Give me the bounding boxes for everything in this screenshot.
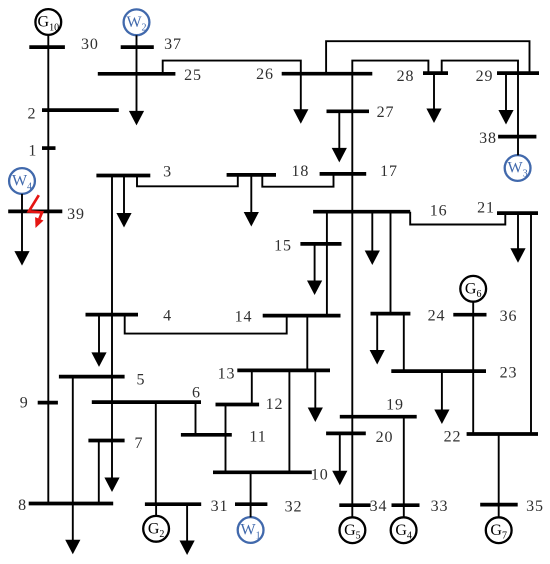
svg-text:11: 11 (249, 429, 266, 446)
wire bus 30 to bus 2 (47, 47, 49, 110)
wire bus 4 to bus 14 (125, 315, 287, 334)
bus 22 (467, 432, 538, 436)
wire bus 35 to G7 (498, 505, 500, 518)
svg-text:2: 2 (28, 106, 37, 123)
generator G5 (340, 517, 366, 543)
bus 27 (327, 109, 370, 113)
svg-text:4: 4 (163, 308, 172, 325)
load arrow bus 26 (293, 74, 308, 124)
svg-text:29: 29 (476, 68, 494, 85)
wire bus 22 to bus 35 (498, 434, 500, 505)
svg-text:27: 27 (377, 104, 395, 121)
svg-text:8: 8 (18, 497, 27, 514)
svg-text:20: 20 (376, 429, 394, 446)
svg-text:26: 26 (256, 66, 274, 83)
svg-text:17: 17 (380, 163, 398, 180)
generator G7 (486, 517, 512, 543)
bus 21 (497, 211, 538, 215)
bus 13 (237, 369, 330, 373)
svg-text:9: 9 (20, 394, 29, 411)
wire bus 38 to W3 (517, 137, 519, 156)
wire bus 9 to bus 8 (47, 403, 49, 504)
wire bus 19 to bus 33 (403, 417, 405, 506)
wire W4 to bus 39 (21, 194, 23, 212)
bus 24 (371, 312, 411, 316)
wire bus 33 to G4 (403, 505, 405, 517)
svg-text:30: 30 (81, 36, 99, 53)
svg-text:12: 12 (266, 396, 284, 413)
wire bus 4 to bus 5 (111, 315, 113, 377)
generator G6 (460, 276, 486, 302)
wire bus 19 to bus 20 (351, 417, 353, 434)
load arrow bus 23 (434, 371, 449, 424)
bus 26 (282, 72, 373, 76)
svg-text:21: 21 (477, 200, 495, 217)
load arrow bus 7 (104, 441, 119, 493)
bus 15 (300, 242, 341, 246)
load arrow bus 20 (332, 433, 347, 485)
wire bus 27 to bus 17 (351, 111, 353, 174)
bus 4 (86, 313, 139, 317)
wire bus 16 to bus 24 (390, 212, 392, 314)
svg-text:33: 33 (431, 498, 449, 515)
bus 16 (313, 210, 410, 214)
wire bus 18 to bus 17 (262, 174, 333, 187)
svg-text:32: 32 (285, 499, 303, 516)
wire bus 6 to bus 11 (195, 402, 197, 435)
wire bus 5 to bus 6 (111, 377, 113, 403)
bus 23 (391, 369, 486, 373)
wind unit W4 (9, 168, 35, 194)
wire bus 16 to bus 19 (351, 212, 353, 417)
load arrow bus 25 (129, 74, 144, 126)
load arrow bus 15 (307, 244, 322, 295)
wire bus 25 to bus 26 (163, 61, 301, 74)
wire W2 to bus 37 (136, 35, 138, 47)
load arrow bus 27 (332, 111, 347, 162)
bus 32 (235, 502, 267, 506)
svg-text:6: 6 (192, 385, 201, 402)
bus 12 (216, 403, 260, 407)
bus 19 (340, 415, 417, 419)
load arrow bus 21 (510, 213, 525, 263)
bus 18 (227, 173, 276, 177)
wire bus 23 to bus 22 (472, 371, 474, 434)
generator G2 (143, 516, 169, 542)
wire bus 10 to bus 32 (250, 472, 252, 504)
wire bus 15 to bus 14 (326, 244, 328, 316)
wire G10 to bus 30 (47, 35, 49, 47)
load arrow bus 18 (244, 175, 259, 227)
wire bus 24 to bus 23 (403, 314, 405, 372)
bus 20 (326, 432, 366, 436)
wire bus 2 to bus 1 (47, 110, 49, 148)
svg-text:5: 5 (136, 372, 145, 389)
wire bus 1 to bus 39 (47, 148, 49, 211)
wire bus 37 to bus 25 (136, 47, 138, 74)
svg-text:38: 38 (479, 130, 497, 147)
wire bus 3 to bus 4 (111, 176, 113, 315)
wire bus 5 to bus 8 (72, 377, 74, 504)
svg-text:39: 39 (67, 206, 85, 223)
bus 5 (59, 375, 125, 379)
wire bus 16 to bus 15 (326, 212, 328, 244)
svg-text:3: 3 (163, 163, 172, 180)
svg-text:23: 23 (500, 365, 518, 382)
wire bus 31 to G2 (155, 504, 157, 516)
wire bus 26 to bus 28 (352, 61, 428, 74)
wire bus 28 to bus 29 (442, 61, 518, 74)
bus 30 (29, 45, 65, 49)
load arrow bus 3 (116, 176, 131, 228)
wire bus 20 to bus 34 (351, 433, 353, 505)
load arrow bus 4 (91, 315, 106, 367)
wire bus 7 to bus 8 (98, 441, 100, 504)
wire bus 16 to bus 21 (410, 212, 505, 225)
wire bus 29 to bus 38 (517, 73, 519, 137)
wire bus 32 to W1 (250, 504, 252, 517)
wire bus 26 to bus 29 (326, 41, 529, 73)
bus 37 (121, 45, 154, 49)
fault lightning arrow at bus 39 (29, 195, 44, 228)
svg-text:22: 22 (444, 429, 462, 446)
bus 38 (498, 135, 536, 139)
svg-text:25: 25 (184, 67, 202, 84)
svg-text:36: 36 (500, 308, 518, 325)
svg-text:37: 37 (164, 36, 182, 53)
wire bus 11 to bus 10 (225, 435, 227, 473)
generator G4 (391, 517, 417, 543)
svg-text:19: 19 (386, 397, 404, 414)
bus 2 (42, 108, 119, 112)
load arrow bus 24 (370, 314, 385, 365)
wire bus 21 to bus 22 (530, 213, 532, 434)
bus 17 (320, 172, 367, 176)
bus 1 (42, 146, 56, 150)
svg-text:15: 15 (274, 238, 292, 255)
wind unit W2 (124, 9, 150, 35)
svg-text:35: 35 (526, 498, 544, 515)
load arrow bus 16 (365, 212, 380, 265)
wire bus 14 to bus 13 (306, 316, 308, 371)
svg-text:31: 31 (211, 498, 229, 515)
wire bus 6 to bus 7 (111, 402, 113, 440)
wire G6 to bus 36 (472, 302, 474, 315)
load arrow bus 28 (426, 73, 441, 123)
bus 10 (213, 470, 312, 474)
bus 6 (92, 400, 201, 404)
svg-text:24: 24 (428, 308, 446, 325)
bus 33 (392, 503, 420, 507)
wire bus 12 to bus 11 (225, 405, 227, 435)
wire bus 13 to bus 12 (251, 370, 253, 404)
bus 14 (263, 314, 341, 318)
bus 39 (8, 210, 62, 214)
wire bus 39 to bus 9 (47, 211, 49, 402)
load arrow bus 29 (498, 73, 513, 124)
bus 28 (423, 71, 448, 75)
svg-text:18: 18 (291, 163, 309, 180)
svg-text:16: 16 (430, 203, 448, 220)
generator G10 (35, 9, 61, 35)
bus 29 (497, 71, 539, 75)
bus 35 (480, 503, 518, 507)
svg-text:7: 7 (135, 435, 144, 452)
wire bus 34 to G5 (351, 505, 353, 517)
wire bus 26 to bus 27 (351, 74, 353, 112)
svg-text:10: 10 (311, 467, 329, 484)
bus 36 (453, 313, 486, 317)
svg-text:14: 14 (235, 309, 253, 326)
svg-text:13: 13 (218, 366, 236, 383)
load arrow bus 39 (14, 211, 29, 265)
bus 7 (88, 439, 124, 443)
bus 8 (29, 502, 114, 506)
svg-text:28: 28 (397, 68, 415, 85)
load arrow bus 31 (180, 504, 195, 555)
svg-text:34: 34 (370, 498, 388, 515)
wire bus 3 to bus 18 (137, 175, 238, 186)
wire bus 6 to bus 31 (155, 402, 157, 504)
bus 25 (98, 72, 176, 76)
wire bus 13 to bus 10 (288, 370, 290, 472)
bus 34 (339, 503, 370, 507)
bus 31 (145, 502, 201, 506)
load arrow bus 8 (65, 504, 80, 555)
svg-text:1: 1 (28, 143, 37, 160)
wire bus 17 to bus 16 (351, 174, 353, 212)
wind unit W3 (505, 155, 531, 181)
bus 9 (38, 401, 58, 405)
bus 11 (181, 433, 232, 437)
load arrow bus 13 (308, 370, 323, 422)
wire bus 36 to bus 23 (472, 315, 474, 371)
wind unit W1 (238, 517, 264, 543)
bus 3 (96, 174, 150, 178)
